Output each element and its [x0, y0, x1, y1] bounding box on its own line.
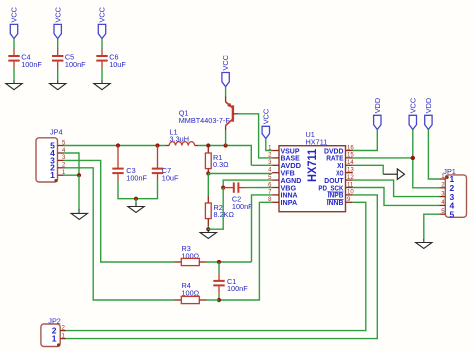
wire VCC to C4: [13, 39, 15, 49]
junction C7 top on rail: [155, 143, 159, 147]
wire RATE to junction: [353, 157, 413, 159]
junction RATE / VCC: [411, 156, 415, 160]
wire Q1 collector to rail: [225, 130, 227, 146]
power flag VCC right: [408, 98, 417, 130]
wire VCC to C6: [101, 39, 103, 49]
wire DOUT to JP1.3: [353, 180, 440, 197]
svg-text:5: 5: [450, 209, 455, 219]
wire C4 to ground: [13, 68, 15, 81]
resistor R2 8.2K: [205, 196, 234, 226]
wire ground tap: [135, 199, 137, 204]
svg-text:VCC: VCC: [261, 109, 270, 124]
junction Q1 collector on rail: [224, 143, 228, 147]
junction AGND / C2 left: [221, 186, 225, 190]
ground below JP4: [71, 209, 87, 219]
svg-text:VDD: VDD: [424, 98, 433, 113]
wire VCC to Q1 emitter: [225, 87, 227, 97]
capacitor C7 10uF: [152, 146, 179, 183]
junction ground tap C3/C7: [134, 197, 138, 201]
svg-text:0.3Ω: 0.3Ω: [213, 160, 229, 169]
wire JP2.1 to U1 INPB: [66, 195, 377, 339]
wire JP4.1 to junction: [64, 174, 80, 176]
svg-text:100nF: 100nF: [65, 60, 86, 69]
svg-text:VCC: VCC: [221, 55, 230, 70]
wire C5 to ground: [57, 68, 59, 81]
wire AVDD drop to U1: [251, 164, 272, 166]
wire C3 bottom to ground tie: [118, 181, 158, 199]
wire R3 right to INNA column: [207, 261, 252, 263]
svg-text:VCC: VCC: [53, 7, 62, 22]
wire net AVDD top rail (JP4.5 to L1): [64, 145, 167, 147]
svg-text:1: 1: [52, 334, 57, 344]
wire XI to arrow: [353, 165, 383, 174]
wire JP4.2 down-left column: [64, 168, 175, 300]
ground below C5: [50, 81, 66, 90]
resistor R4 100ohm: [174, 281, 206, 303]
capacitor C2 100nF: [223, 182, 253, 211]
power flag VCC above C6: [98, 7, 107, 39]
ground below C3/C7: [128, 203, 144, 213]
svg-text:HX711: HX711: [305, 149, 319, 182]
wire JP4.3 down-left column: [64, 160, 175, 262]
svg-text:10uF: 10uF: [162, 173, 179, 182]
ground below C6: [94, 81, 110, 90]
wire JP4.4 down to ground junction: [64, 153, 80, 175]
power flag VCC above Q1: [221, 55, 230, 87]
wire C6 to ground: [101, 68, 103, 81]
wire VDD down to JP1.1: [428, 130, 439, 180]
svg-text:100nF: 100nF: [21, 60, 42, 69]
wire VCC to VSUP: [266, 139, 272, 151]
wire AGND down to R2 bottom: [208, 188, 223, 230]
wire DVDD to VDD: [353, 130, 378, 151]
connector JP4: [36, 128, 66, 183]
capacitor C3 100nF: [112, 146, 147, 183]
power flag VDD right: [424, 98, 433, 130]
junction R1 top on rail: [206, 143, 210, 147]
transistor Q1 MMBT4403-7-F (PNP): [179, 97, 238, 131]
wire PD_SCK to JP1.4: [353, 188, 440, 206]
junction R2 bottom / AGND / ground: [206, 227, 210, 231]
IC U1 HX711: [268, 130, 354, 212]
svg-text:INPA: INPA: [281, 198, 298, 207]
power flag VCC above U1 VSUP: [261, 109, 270, 139]
svg-text:100nF: 100nF: [126, 173, 147, 182]
wire R2 bottom to junction: [207, 226, 209, 229]
ground below R2: [200, 230, 216, 239]
junction R1 bottom / VFB: [206, 171, 210, 175]
ground below C4: [6, 81, 22, 90]
svg-text:100nF: 100nF: [227, 284, 248, 293]
capacitor C6 10uF: [96, 49, 126, 69]
resistor R1 0.3ohm: [205, 146, 229, 174]
capacitor C5 100nF: [52, 49, 86, 69]
wire INNA from U1 down to R3 row: [252, 195, 273, 262]
junction C1 top: [217, 260, 221, 264]
wire VCC down to JP1.2: [413, 130, 440, 188]
connector JP2: [41, 317, 66, 347]
wire INPA from U1 down: [219, 202, 272, 300]
wire JP1.5 to ground: [424, 214, 440, 239]
wire junction to ground: [78, 175, 80, 209]
wire R4 right segment: [207, 299, 220, 301]
junction C1 bottom: [217, 298, 221, 302]
wire AGND from U1: [223, 180, 272, 188]
wire JP2.2 to U1 INNB: [66, 202, 366, 330]
svg-text:13: 13: [347, 168, 354, 174]
wire VCC to C5: [57, 39, 59, 49]
power flag VDD above DVDD: [373, 98, 382, 130]
connector JP1: [440, 167, 467, 220]
svg-text:10uF: 10uF: [109, 60, 126, 69]
ground below JP1: [416, 239, 432, 249]
svg-text:VCC: VCC: [408, 98, 417, 113]
svg-text:1: 1: [50, 170, 55, 180]
svg-text:100nF: 100nF: [232, 202, 253, 211]
resistor R3 100ohm: [174, 244, 206, 266]
antenna arrow on XI: [383, 169, 404, 180]
svg-text:VCC: VCC: [98, 7, 107, 22]
svg-text:MMBT4403-7-F: MMBT4403-7-F: [179, 116, 231, 125]
svg-text:8.2KΩ: 8.2KΩ: [214, 210, 235, 219]
wire net AVDD rail (L1 to corner): [198, 146, 251, 166]
wire R1 bottom to R2 top: [207, 174, 209, 196]
inductor L1 3.3uH: [166, 127, 198, 145]
wire C2 right to U1 VBG: [246, 187, 272, 189]
wire VFB to U1: [208, 173, 272, 175]
power flag VCC above C4: [10, 7, 19, 39]
junction JP4 pins 1-4: [77, 173, 81, 177]
svg-text:JP4: JP4: [50, 128, 63, 137]
power flag VCC above C5: [53, 7, 62, 39]
capacitor C1 100nF: [213, 262, 248, 300]
svg-text:VCC: VCC: [10, 7, 19, 22]
svg-text:VDD: VDD: [373, 98, 382, 113]
wire Q1 base to U1 BASE: [238, 114, 272, 158]
capacitor C4 100nF: [8, 49, 42, 69]
junction C3 top on rail: [116, 143, 120, 147]
wire junction to ground: [207, 229, 209, 230]
